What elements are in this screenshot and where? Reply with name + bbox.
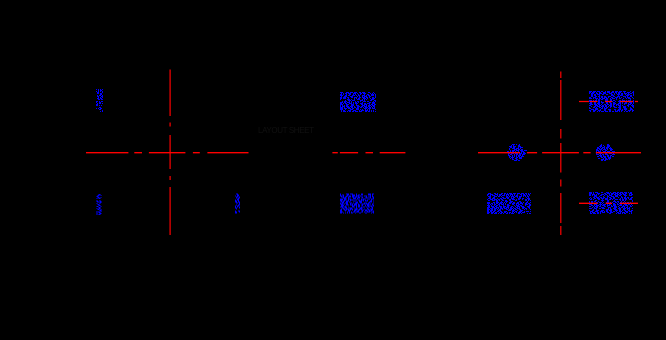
svg-text:LAYOUT SHEET: LAYOUT SHEET (258, 126, 314, 135)
